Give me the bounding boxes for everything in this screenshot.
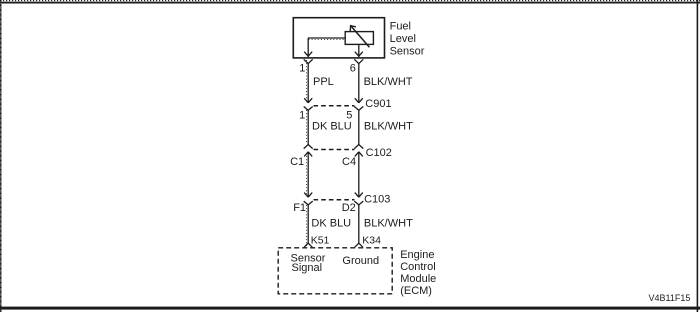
svg-text:(ECM): (ECM) xyxy=(400,285,432,297)
svg-text:1: 1 xyxy=(299,109,305,121)
svg-text:BLK/WHT: BLK/WHT xyxy=(364,76,413,88)
svg-text:Level: Level xyxy=(390,33,416,45)
svg-text:Engine: Engine xyxy=(400,249,434,261)
svg-text:C1: C1 xyxy=(290,156,304,168)
svg-text:Ground: Ground xyxy=(342,255,379,267)
svg-text:DK BLU: DK BLU xyxy=(311,218,351,230)
svg-text:V4B11F15: V4B11F15 xyxy=(649,293,691,303)
svg-text:Sensor: Sensor xyxy=(390,45,425,57)
svg-text:C102: C102 xyxy=(366,147,392,159)
svg-text:C103: C103 xyxy=(364,193,390,205)
svg-text:DK BLU: DK BLU xyxy=(312,121,352,133)
svg-text:K51: K51 xyxy=(311,234,330,246)
svg-text:BLK/WHT: BLK/WHT xyxy=(364,218,413,230)
svg-text:6: 6 xyxy=(350,62,356,74)
svg-text:Control: Control xyxy=(400,261,435,273)
svg-text:PPL: PPL xyxy=(313,76,334,88)
svg-text:BLK/WHT: BLK/WHT xyxy=(364,121,413,133)
svg-text:1: 1 xyxy=(299,62,305,74)
svg-text:Fuel: Fuel xyxy=(390,21,411,33)
svg-text:D2: D2 xyxy=(342,202,356,214)
svg-text:Module: Module xyxy=(400,273,436,285)
svg-text:K34: K34 xyxy=(362,234,381,246)
svg-text:F1: F1 xyxy=(293,202,306,214)
svg-text:Signal: Signal xyxy=(292,262,323,274)
svg-text:C4: C4 xyxy=(342,156,356,168)
svg-text:C901: C901 xyxy=(365,98,391,110)
